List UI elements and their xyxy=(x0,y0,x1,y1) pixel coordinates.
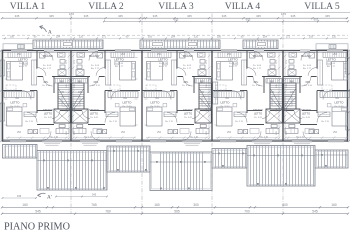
svg-text:A': A' xyxy=(47,195,52,201)
svg-text:345: 345 xyxy=(17,194,22,198)
svg-text:160: 160 xyxy=(331,203,337,207)
svg-text:271: 271 xyxy=(102,36,107,39)
svg-text:600: 600 xyxy=(282,203,288,207)
villa 5 interior xyxy=(283,50,350,146)
bottom dimension row 1 xyxy=(1,203,349,209)
svg-text:Pa. 11.30: Pa. 11.30 xyxy=(335,106,345,108)
svg-text:105: 105 xyxy=(148,36,153,39)
svg-text:Ra. 1.77: Ra. 1.77 xyxy=(159,66,168,68)
mini dimension row above plan xyxy=(2,35,348,39)
svg-text:Pa. 9.45: Pa. 9.45 xyxy=(302,117,311,119)
svg-text:STUDIO: STUDIO xyxy=(89,108,99,112)
svg-text:DIS.: DIS. xyxy=(306,81,311,84)
svg-text:254: 254 xyxy=(157,132,162,134)
svg-text:Ra. 2.70: Ra. 2.70 xyxy=(190,137,199,139)
svg-text:LETTO: LETTO xyxy=(18,57,28,61)
svg-text:Ra. 2.70: Ra. 2.70 xyxy=(109,121,118,123)
section line x=142 xyxy=(141,14,143,215)
svg-text:254: 254 xyxy=(56,36,61,39)
svg-text:Pa. 9.45: Pa. 9.45 xyxy=(159,63,168,65)
svg-text:LETTO: LETTO xyxy=(221,101,231,105)
svg-text:120: 120 xyxy=(286,130,288,134)
building top wall xyxy=(3,50,348,52)
svg-text:765: 765 xyxy=(91,203,97,207)
svg-text:LETTO: LETTO xyxy=(11,101,21,105)
svg-text:254: 254 xyxy=(333,132,338,134)
svg-text:120: 120 xyxy=(206,130,208,134)
svg-text:Ra. 1.77: Ra. 1.77 xyxy=(327,66,336,68)
svg-text:Ra. 2.70: Ra. 2.70 xyxy=(235,121,244,123)
svg-text:603: 603 xyxy=(314,18,319,22)
svg-text:LETTO: LETTO xyxy=(335,101,345,105)
svg-text:254: 254 xyxy=(227,54,232,56)
stair core villa 5 xyxy=(284,83,296,109)
kitchen appliances villa 2 xyxy=(97,130,107,134)
svg-text:271: 271 xyxy=(286,59,288,63)
balcony B3 (villa 4) xyxy=(243,40,278,49)
svg-text:LETTO: LETTO xyxy=(302,111,310,115)
svg-text:VILLA 2: VILLA 2 xyxy=(88,1,124,12)
svg-text:Pa. 5.05: Pa. 5.05 xyxy=(253,65,262,67)
svg-text:Ra. 1.77: Ra. 1.77 xyxy=(183,68,192,70)
svg-text:LETTO: LETTO xyxy=(151,101,161,105)
svg-text:254: 254 xyxy=(157,54,162,56)
svg-text:120: 120 xyxy=(74,130,76,134)
svg-text:DIS.: DIS. xyxy=(44,81,49,84)
svg-text:120: 120 xyxy=(276,130,278,134)
kitchen appliances villa 5 xyxy=(309,130,319,134)
svg-text:345: 345 xyxy=(49,14,54,18)
svg-text:254: 254 xyxy=(17,54,22,56)
section marker A xyxy=(40,26,53,36)
svg-text:Ra. 1.77: Ra. 1.77 xyxy=(253,68,262,70)
right edge dim chain xyxy=(348,49,350,142)
svg-text:345: 345 xyxy=(15,14,20,18)
svg-text:271: 271 xyxy=(276,59,278,63)
svg-text:345: 345 xyxy=(92,192,97,196)
party wall x=212 xyxy=(211,51,213,142)
svg-text:LETTO: LETTO xyxy=(123,101,133,105)
svg-text:Pa. 5.05: Pa. 5.05 xyxy=(43,65,52,67)
svg-text:Pa. 5.05: Pa. 5.05 xyxy=(183,65,192,67)
svg-text:170: 170 xyxy=(281,12,286,16)
svg-text:254: 254 xyxy=(171,36,176,39)
svg-text:LETTO: LETTO xyxy=(254,111,262,115)
svg-text:603: 603 xyxy=(246,18,251,22)
svg-text:Pa. 11.30: Pa. 11.30 xyxy=(151,106,161,108)
villa 3 interior xyxy=(142,50,211,146)
party wall x=142 xyxy=(141,51,143,142)
stair core villa 3 xyxy=(199,83,211,109)
svg-text:354: 354 xyxy=(206,107,208,111)
svg-text:VILLA 5: VILLA 5 xyxy=(304,1,340,12)
svg-text:354: 354 xyxy=(225,98,230,100)
terrace T3 xyxy=(247,146,315,187)
svg-text:760: 760 xyxy=(105,209,111,213)
svg-text:LETTO: LETTO xyxy=(228,57,238,61)
svg-text:603: 603 xyxy=(174,18,179,22)
svg-text:Pa. 11.30: Pa. 11.30 xyxy=(221,106,231,108)
svg-text:354: 354 xyxy=(335,98,340,100)
svg-text:Ra. 1.77: Ra. 1.77 xyxy=(303,68,312,70)
section line x=212 xyxy=(211,14,213,215)
svg-text:Ra. 2.70: Ra. 2.70 xyxy=(260,137,269,139)
svg-text:354: 354 xyxy=(15,98,20,100)
svg-text:105: 105 xyxy=(276,83,278,87)
svg-text:345: 345 xyxy=(84,14,89,18)
svg-text:254: 254 xyxy=(263,36,268,39)
svg-text:120: 120 xyxy=(194,36,199,39)
balcony door gaps xyxy=(63,42,266,48)
terrace T2 xyxy=(150,152,212,191)
svg-text:345: 345 xyxy=(291,14,296,18)
svg-text:Pa. 9.45: Pa. 9.45 xyxy=(90,117,99,119)
svg-text:120: 120 xyxy=(66,130,68,134)
terrace strip mid2 xyxy=(212,149,247,169)
svg-text:105: 105 xyxy=(74,83,76,87)
villa 4 interior xyxy=(212,50,281,146)
svg-text:Ra. 2.70: Ra. 2.70 xyxy=(50,137,59,139)
svg-text:345: 345 xyxy=(256,14,261,18)
svg-text:345: 345 xyxy=(187,14,192,18)
section line x=71 xyxy=(70,14,72,215)
svg-text:90: 90 xyxy=(241,36,244,39)
kitchen appliances villa 4 xyxy=(238,130,248,134)
svg-text:Pa. 3.10: Pa. 3.10 xyxy=(304,85,313,87)
svg-text:Pa. 3.10: Pa. 3.10 xyxy=(252,85,261,87)
svg-text:LETTO: LETTO xyxy=(90,111,98,115)
svg-text:STUDIO: STUDIO xyxy=(183,108,193,112)
svg-text:345: 345 xyxy=(325,14,330,18)
svg-text:LETTO: LETTO xyxy=(114,57,124,61)
header rule xyxy=(0,12,350,14)
svg-text:271: 271 xyxy=(66,59,68,63)
left wall windows xyxy=(0,60,5,121)
svg-text:700: 700 xyxy=(244,209,250,213)
balcony B1 (villas 1-2) xyxy=(33,40,103,49)
top dimension line xyxy=(1,14,349,22)
svg-text:345: 345 xyxy=(222,14,227,18)
svg-text:Pa. 3.10: Pa. 3.10 xyxy=(42,85,51,87)
top ledge villa 1 xyxy=(3,44,33,50)
party wall x=71 xyxy=(70,51,72,142)
svg-text:Ra. 1.77: Ra. 1.77 xyxy=(229,66,238,68)
terrace strip right xyxy=(315,150,348,168)
svg-text:Pa. 9.45: Pa. 9.45 xyxy=(184,117,193,119)
left edge dim chain xyxy=(0,49,2,142)
svg-text:120: 120 xyxy=(332,36,337,39)
svg-text:150: 150 xyxy=(217,36,222,39)
svg-text:Ra. 2.70: Ra. 2.70 xyxy=(165,121,174,123)
svg-text:Pa. 3.10: Pa. 3.10 xyxy=(92,85,101,87)
svg-text:354: 354 xyxy=(123,98,128,100)
svg-text:105: 105 xyxy=(286,83,288,87)
svg-text:105: 105 xyxy=(206,83,208,87)
kitchen appliances villa 1 xyxy=(28,130,38,134)
sub-terrace dim xyxy=(2,194,37,199)
balcony B2 (villa 3) xyxy=(140,40,220,49)
terrace strip mid1 xyxy=(107,146,150,172)
svg-text:254: 254 xyxy=(121,132,126,134)
svg-text:160: 160 xyxy=(154,203,160,207)
sub-terrace dim T1 xyxy=(55,192,108,197)
svg-text:LETTO: LETTO xyxy=(326,57,336,61)
svg-text:545: 545 xyxy=(35,209,41,213)
svg-text:Ra. 2.70: Ra. 2.70 xyxy=(321,121,330,123)
svg-text:Pa. 11.30: Pa. 11.30 xyxy=(123,106,133,108)
svg-text:Pa. 3.10: Pa. 3.10 xyxy=(182,85,191,87)
svg-text:STUDIO: STUDIO xyxy=(253,108,263,112)
section marker A-prime xyxy=(38,193,52,200)
terrace T1 xyxy=(37,151,107,191)
svg-text:271: 271 xyxy=(74,59,76,63)
svg-text:254: 254 xyxy=(17,132,22,134)
svg-text:DIS.: DIS. xyxy=(184,81,189,84)
svg-text:Pa. 9.45: Pa. 9.45 xyxy=(254,117,263,119)
stair core villa 1 xyxy=(58,83,70,109)
svg-text:VILLA 1: VILLA 1 xyxy=(10,1,46,12)
svg-text:A: A xyxy=(48,30,52,36)
svg-text:STUDIO: STUDIO xyxy=(43,108,53,112)
svg-text:Pa. 9.45: Pa. 9.45 xyxy=(115,63,124,65)
svg-text:Pa. 9.45: Pa. 9.45 xyxy=(327,63,336,65)
svg-text:170: 170 xyxy=(69,12,74,16)
svg-text:345: 345 xyxy=(153,14,158,18)
svg-text:105: 105 xyxy=(309,36,314,39)
svg-text:345: 345 xyxy=(118,14,123,18)
terrace strip left xyxy=(3,145,38,159)
svg-text:VILLA 4: VILLA 4 xyxy=(225,1,261,12)
svg-text:LETTO: LETTO xyxy=(44,111,52,115)
stair core villa 2 xyxy=(72,83,84,109)
stair core villa 4 xyxy=(270,83,282,109)
svg-text:Ra. 1.77: Ra. 1.77 xyxy=(115,66,124,68)
svg-text:354: 354 xyxy=(155,98,160,100)
bottom dimension row 2 xyxy=(1,209,349,215)
svg-text:DIS.: DIS. xyxy=(94,81,99,84)
svg-text:Pa. 11.30: Pa. 11.30 xyxy=(11,106,21,108)
svg-text:Pa. 9.45: Pa. 9.45 xyxy=(19,63,28,65)
svg-text:Pa. 9.45: Pa. 9.45 xyxy=(229,63,238,65)
svg-text:354: 354 xyxy=(276,107,278,111)
svg-text:150: 150 xyxy=(10,36,15,39)
svg-text:LETTO: LETTO xyxy=(184,111,192,115)
wardrobe strip villa 4 left xyxy=(213,82,218,104)
section line x=283 xyxy=(282,14,284,215)
villa 1 interior xyxy=(2,50,71,146)
top ledge villa 5 xyxy=(316,44,348,50)
svg-text:Ra. 1.77: Ra. 1.77 xyxy=(43,68,52,70)
svg-text:160: 160 xyxy=(22,203,28,207)
svg-text:DIS.: DIS. xyxy=(254,81,259,84)
right wall windows xyxy=(345,58,349,130)
svg-text:VILLA 3: VILLA 3 xyxy=(158,1,194,12)
svg-text:Ra. 1.77: Ra. 1.77 xyxy=(19,66,28,68)
svg-text:254: 254 xyxy=(227,132,232,134)
svg-text:Pa. 9.45: Pa. 9.45 xyxy=(44,117,53,119)
svg-text:Ra. 1.77: Ra. 1.77 xyxy=(91,68,100,70)
svg-text:300: 300 xyxy=(193,203,199,207)
svg-text:271: 271 xyxy=(286,36,291,39)
svg-text:90: 90 xyxy=(34,36,37,39)
building bottom wall xyxy=(3,140,348,142)
svg-text:Pa. 5.05: Pa. 5.05 xyxy=(91,65,100,67)
svg-text:271: 271 xyxy=(206,59,208,63)
svg-text:LETTO: LETTO xyxy=(158,57,168,61)
kitchen appliances villa 3 xyxy=(168,130,178,134)
svg-text:120: 120 xyxy=(79,36,84,39)
building left wall xyxy=(2,50,4,142)
svg-text:STUDIO: STUDIO xyxy=(301,108,311,112)
svg-text:545: 545 xyxy=(312,209,318,213)
party wall x=283 xyxy=(282,51,284,142)
villa 2 interior xyxy=(71,50,140,146)
svg-text:Ra. 2.70: Ra. 2.70 xyxy=(25,121,34,123)
svg-text:PIANO PRIMO: PIANO PRIMO xyxy=(4,222,70,233)
svg-text:105: 105 xyxy=(66,83,68,87)
svg-text:90: 90 xyxy=(126,36,129,39)
svg-text:Pa. 5.05: Pa. 5.05 xyxy=(303,65,312,67)
building right wall xyxy=(347,50,349,142)
svg-text:565: 565 xyxy=(174,209,180,213)
